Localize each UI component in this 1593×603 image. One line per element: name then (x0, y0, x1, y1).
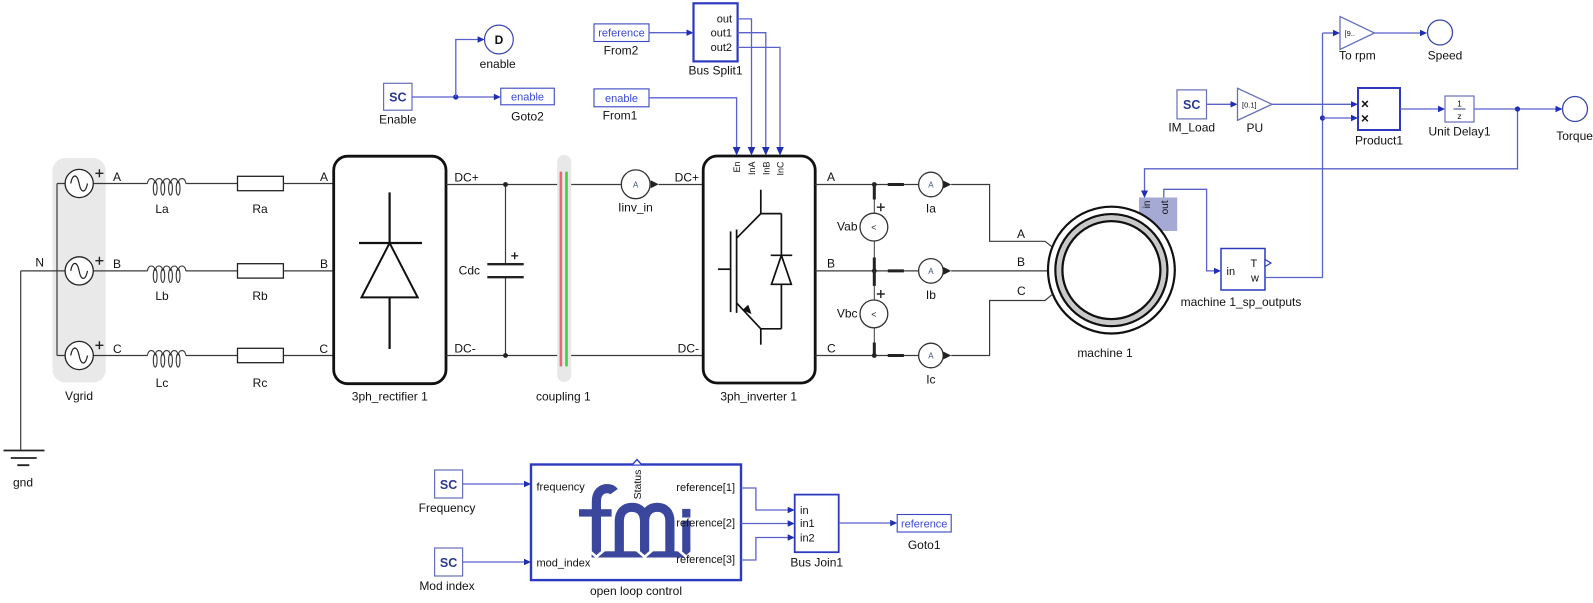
svg-text:A: A (928, 181, 934, 190)
svg-text:A: A (928, 352, 934, 361)
ammeter Ic (919, 343, 952, 386)
svg-text:in: in (1142, 201, 1153, 209)
svg-text:En: En (732, 162, 742, 173)
wire Unit Delay1 to Torque (1474, 108, 1557, 110)
wire phase C inverter to Ic (815, 355, 918, 357)
svg-text:SC: SC (440, 478, 457, 492)
svg-text:Speed: Speed (1428, 49, 1463, 63)
ammeter Ia (919, 172, 952, 215)
svg-text:A: A (113, 170, 121, 184)
wire Ib to machine B (951, 270, 1048, 272)
wire Bus Join1 to Goto1 (839, 522, 892, 524)
svg-text:reference[2]: reference[2] (676, 518, 735, 530)
svg-text:DC+: DC+ (675, 171, 699, 185)
svg-text:3ph_rectifier 1: 3ph_rectifier 1 (352, 390, 428, 404)
inductor La (148, 179, 186, 196)
wire phase B inverter to Ib (815, 270, 918, 272)
svg-text:DC-: DC- (454, 342, 475, 356)
svg-text:SC: SC (389, 91, 406, 105)
resistor Rc (238, 348, 284, 362)
svg-text:Ra: Ra (252, 202, 268, 216)
wire To rpm to Speed (1375, 32, 1422, 34)
svg-text:w: w (1250, 273, 1259, 285)
svg-text:Rb: Rb (252, 289, 268, 303)
svg-text:×: × (1361, 96, 1369, 111)
voltmeter Vab (837, 185, 888, 271)
svg-text:IM_Load: IM_Load (1168, 121, 1215, 135)
constant block Mod index (419, 548, 474, 593)
wire Ia to machine A (951, 185, 1052, 247)
svg-text:B: B (113, 257, 121, 271)
svg-text:B: B (827, 257, 835, 271)
inductor Lc (148, 351, 186, 368)
wire DC+ rail left (446, 184, 557, 186)
svg-text:T: T (1251, 258, 1258, 270)
wire Ic to machine C (951, 295, 1052, 356)
display probe D (480, 25, 516, 71)
AC source Vgrid phase A (57, 169, 148, 197)
svg-text:DC-: DC- (678, 342, 699, 356)
svg-text:Ia: Ia (926, 202, 936, 216)
capacitor Cdc (459, 182, 524, 358)
wire From1 to inverter En (649, 98, 737, 150)
open loop control port labels (537, 460, 736, 598)
svg-text:InA: InA (747, 162, 757, 176)
wire PU to Product1 (1272, 103, 1353, 105)
svg-text:A: A (928, 267, 934, 276)
svg-text:coupling 1: coupling 1 (536, 390, 591, 404)
wire Rc to rectifier (283, 355, 333, 357)
rectifier diode (359, 192, 422, 349)
svg-text:Cdc: Cdc (459, 264, 480, 278)
Product1 block (1355, 88, 1403, 148)
machine 1 middle circle (1055, 214, 1167, 326)
wire Mod index to block (463, 561, 526, 563)
wire Frequency to block (463, 483, 526, 485)
svg-text:DC+: DC+ (454, 171, 478, 185)
wire speed up to To rpm (1323, 32, 1335, 34)
wire From2 to Bus Split1 (649, 32, 688, 34)
svg-text:N: N (35, 256, 44, 270)
svg-text:Mod index: Mod index (419, 579, 474, 593)
Bus Join1 block (790, 495, 843, 570)
svg-text:Lc: Lc (156, 376, 169, 390)
svg-text:reference[1]: reference[1] (676, 482, 735, 494)
junction speed to product (1320, 115, 1325, 120)
svg-text:B: B (320, 257, 328, 271)
svg-text:Ic: Ic (926, 373, 935, 387)
svg-text:in2: in2 (800, 533, 815, 545)
svg-text:Enable: Enable (379, 113, 417, 127)
svg-text:[0.1]: [0.1] (1242, 100, 1257, 109)
svg-text:Rc: Rc (253, 376, 268, 390)
coupling 1 (536, 155, 591, 404)
resistor Rb (238, 264, 284, 278)
svg-text:Unit Delay1: Unit Delay1 (1428, 125, 1490, 139)
goto tag enable (Goto2) group: source SC Enable (379, 83, 417, 126)
scope Torque (1556, 97, 1593, 144)
svg-text:C: C (827, 342, 836, 356)
wire DC+ rail right (571, 184, 621, 186)
svg-text:×: × (1361, 111, 1369, 126)
svg-text:out: out (1160, 200, 1171, 214)
svg-text:SC: SC (1183, 98, 1200, 112)
wire junction up to D probe (456, 40, 479, 98)
inductor Lb (148, 266, 186, 283)
svg-text:<: < (871, 309, 876, 319)
svg-text:3ph_inverter 1: 3ph_inverter 1 (720, 390, 797, 404)
wire reference[3] to Bus Join in2 (741, 538, 789, 561)
wire phase A inverter to Ia (815, 184, 918, 186)
3ph_inverter block (703, 156, 815, 383)
svg-text:reference: reference (598, 28, 644, 40)
svg-text:Product1: Product1 (1355, 134, 1403, 148)
svg-text:A: A (827, 170, 835, 184)
machine 1 inner circle (1062, 221, 1160, 319)
wire Rb to rectifier (283, 270, 333, 272)
ammeter Ib (919, 259, 952, 302)
svg-text:From1: From1 (603, 109, 638, 123)
svg-text:machine 1: machine 1 (1077, 346, 1133, 360)
scope Speed (1428, 20, 1463, 63)
wire Product1 to Unit Delay1 (1400, 108, 1440, 110)
svg-text:<: < (871, 223, 876, 233)
machine 1 stator outer circle (1048, 207, 1175, 334)
svg-text:reference[3]: reference[3] (676, 554, 735, 566)
svg-text:mod_index: mod_index (537, 558, 591, 570)
inverter IGBT (718, 190, 782, 345)
svg-text:Goto2: Goto2 (511, 110, 544, 124)
svg-text:in1: in1 (800, 518, 815, 530)
Vgrid background (53, 158, 106, 383)
svg-text:C: C (319, 342, 328, 356)
svg-text:enable: enable (605, 93, 638, 105)
ammeter Iinv_in (618, 170, 703, 215)
AC source Vgrid phase C (57, 341, 148, 369)
fmi logo (596, 489, 670, 553)
wire reference[1] to Bus Join in (741, 488, 789, 510)
machine in/out port box (1139, 198, 1177, 232)
Bus Split1 block (688, 3, 742, 77)
svg-text:Bus Split1: Bus Split1 (688, 64, 742, 78)
svg-text:D: D (495, 33, 504, 47)
svg-text:reference: reference (901, 518, 947, 530)
open loop control block (531, 465, 741, 581)
svg-text:Frequency: Frequency (419, 501, 476, 515)
inverter freewheeling diode (771, 214, 793, 329)
wire La to Ra (186, 183, 238, 185)
svg-text:gnd: gnd (13, 475, 33, 489)
svg-text:open loop control: open loop control (590, 584, 682, 598)
3ph_rectifier block (334, 156, 446, 384)
svg-text:in: in (800, 505, 809, 517)
wire machine out to sp_outputs (1164, 189, 1216, 271)
svg-text:Torque: Torque (1556, 129, 1593, 143)
svg-text:Vab: Vab (837, 220, 858, 234)
wire reference[2] to Bus Join in1 (741, 523, 789, 525)
svg-text:Status: Status (632, 470, 644, 500)
wire DC- rail left (446, 355, 557, 357)
svg-text:Iinv_in: Iinv_in (618, 201, 653, 215)
wire IM_Load to PU (1207, 103, 1233, 105)
goto tag Goto2 (501, 88, 555, 123)
svg-text:Ib: Ib (926, 288, 936, 302)
svg-text:Vgrid: Vgrid (65, 389, 93, 403)
svg-text:C: C (1017, 284, 1026, 298)
svg-text:1: 1 (1457, 99, 1462, 109)
svg-text:enable: enable (511, 92, 544, 104)
svg-text:out2: out2 (711, 42, 732, 54)
from tag From2 (reference) (594, 24, 649, 58)
svg-text:z: z (1457, 111, 1461, 121)
svg-text:[9..: [9.. (1345, 29, 1355, 38)
svg-text:B: B (1017, 255, 1025, 269)
machine 1 gray ring (1059, 218, 1164, 323)
goto tag Goto1 (reference) (897, 515, 951, 553)
machine 1_sp_outputs block (1181, 249, 1302, 310)
from tag From1 (enable) (594, 89, 649, 123)
Unit Delay1 block (1428, 96, 1490, 139)
wire w output to speed feedback (1265, 33, 1323, 278)
svg-text:out: out (717, 14, 732, 26)
svg-text:out1: out1 (711, 28, 732, 40)
wire N to ground (20, 271, 22, 451)
wire feedback into machine in port (1145, 109, 1518, 192)
wire Bus Split out to InA (738, 19, 752, 150)
constant block Frequency (419, 470, 476, 515)
wire N horizontal (21, 270, 65, 272)
svg-text:To rpm: To rpm (1339, 49, 1376, 63)
voltmeter Vbc (837, 271, 888, 356)
svg-text:A: A (1017, 227, 1025, 241)
constant block IM_Load (1168, 90, 1215, 135)
svg-text:frequency: frequency (537, 481, 586, 493)
svg-text:PU: PU (1246, 121, 1263, 135)
svg-text:C: C (113, 342, 122, 356)
gain To rpm (1339, 17, 1376, 63)
svg-text:Vbc: Vbc (837, 306, 858, 320)
wire Bus Split out1 to InB (738, 33, 766, 150)
wire Bus Split out2 to InC (738, 47, 780, 150)
wire Ra to rectifier (283, 183, 333, 185)
svg-text:InB: InB (761, 162, 771, 176)
AC source Vgrid phase B (65, 257, 147, 285)
wire Lc to Rc (186, 355, 238, 357)
ground (4, 451, 45, 466)
svg-text:InC: InC (776, 161, 786, 176)
wire Vgrid bus (56, 184, 58, 356)
svg-text:From2: From2 (604, 44, 639, 58)
svg-text:Bus Join1: Bus Join1 (790, 556, 843, 570)
svg-text:Goto1: Goto1 (908, 538, 941, 552)
svg-text:Lb: Lb (155, 289, 169, 303)
wire Lb to Rb (186, 270, 238, 272)
svg-text:machine 1_sp_outputs: machine 1_sp_outputs (1181, 295, 1302, 309)
svg-text:A: A (633, 180, 639, 189)
svg-text:La: La (155, 202, 169, 216)
svg-text:enable: enable (480, 57, 516, 71)
gain PU (1238, 88, 1273, 135)
wire Enable SC to junction (412, 96, 496, 98)
resistor Ra (238, 176, 284, 190)
wire DC- rail right (571, 355, 703, 357)
svg-text:A: A (320, 170, 328, 184)
svg-text:in: in (1227, 266, 1236, 278)
svg-text:SC: SC (440, 556, 457, 570)
